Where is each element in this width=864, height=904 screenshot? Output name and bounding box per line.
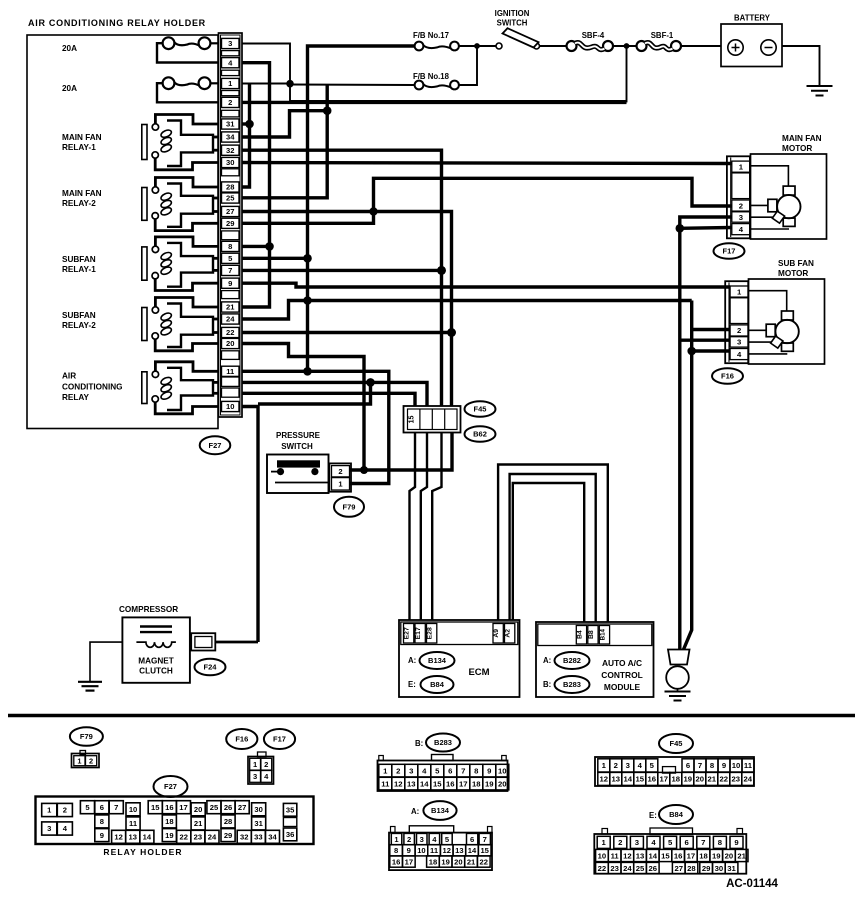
relay body outline xyxy=(167,184,213,227)
wire pin27 junction up and right to main fan pin 2 xyxy=(374,178,732,211)
wire pin 24 up to V4 junction xyxy=(242,301,308,320)
svg-text:20: 20 xyxy=(454,857,462,866)
svg-text:28: 28 xyxy=(226,183,234,192)
svg-text:F45: F45 xyxy=(474,405,487,414)
svg-text:RELAY-2: RELAY-2 xyxy=(62,321,96,330)
junction node pin7 on Va xyxy=(437,266,446,275)
svg-text:18: 18 xyxy=(672,775,681,784)
svg-text:35: 35 xyxy=(286,806,295,815)
svg-text:15: 15 xyxy=(433,779,442,788)
wire F24 to riser xyxy=(215,641,258,644)
svg-text:15: 15 xyxy=(636,775,645,784)
relay contact pin circles xyxy=(152,124,158,130)
svg-text:F16: F16 xyxy=(721,372,734,381)
svg-text:3: 3 xyxy=(737,338,741,347)
svg-text:16: 16 xyxy=(392,857,400,866)
svg-text:1: 1 xyxy=(737,287,742,296)
relay holder pinout box xyxy=(36,797,314,845)
label B62 xyxy=(465,426,496,442)
svg-text:2: 2 xyxy=(264,760,268,769)
ECM box xyxy=(399,620,520,697)
svg-text:9: 9 xyxy=(100,831,104,840)
svg-text:F79: F79 xyxy=(80,732,93,741)
svg-text:23: 23 xyxy=(732,775,741,784)
svg-text:7: 7 xyxy=(483,835,487,844)
relay holder cells group 15-19 xyxy=(148,801,162,814)
svg-text:2: 2 xyxy=(338,467,342,476)
wire loop ECM A9 to module B14 xyxy=(498,465,608,623)
svg-text:9: 9 xyxy=(407,846,411,855)
svg-text:3: 3 xyxy=(635,838,639,847)
svg-text:18: 18 xyxy=(165,817,173,826)
svg-text:A:: A: xyxy=(408,656,416,665)
svg-text:SUBFAN: SUBFAN xyxy=(62,311,96,320)
svg-text:9: 9 xyxy=(734,838,738,847)
junction node compressor branch xyxy=(366,378,375,387)
relay top contact wire xyxy=(155,362,218,372)
wire pin 10 down to compressor clutch xyxy=(242,407,258,643)
sub fan connector F16 strip xyxy=(725,281,748,363)
wire pin 20 to pressure switch pin 2 branch xyxy=(242,344,364,471)
svg-text:32: 32 xyxy=(226,146,234,155)
svg-text:12: 12 xyxy=(442,846,450,855)
svg-text:20: 20 xyxy=(725,851,734,860)
svg-text:15: 15 xyxy=(661,851,670,860)
module pin B4 xyxy=(576,626,586,645)
svg-text:31: 31 xyxy=(727,864,736,873)
relay body outline xyxy=(167,243,213,287)
svg-text:RELAY-1: RELAY-1 xyxy=(62,265,96,274)
svg-text:19: 19 xyxy=(712,851,721,860)
svg-text:10: 10 xyxy=(598,851,607,860)
svg-text:F27: F27 xyxy=(164,782,177,791)
wire pin 27 to junction riser xyxy=(242,210,374,213)
svg-text:11: 11 xyxy=(381,779,390,788)
svg-text:24: 24 xyxy=(208,833,217,842)
svg-text:22: 22 xyxy=(598,864,607,873)
junction node V4 pin11 xyxy=(303,367,312,376)
pressure switch contacts xyxy=(277,468,284,475)
svg-text:25: 25 xyxy=(226,194,235,203)
svg-text:B84: B84 xyxy=(430,680,445,689)
svg-text:13: 13 xyxy=(636,851,645,860)
svg-text:24: 24 xyxy=(226,315,235,324)
wire slot2 down to ECM E17 xyxy=(421,433,427,620)
svg-text:19: 19 xyxy=(165,831,173,840)
pressure switch blade xyxy=(275,482,328,484)
svg-text:CONDITIONING: CONDITIONING xyxy=(62,383,123,392)
junction node main fan pin4 on VA xyxy=(676,224,685,233)
wire VB stub to sub fan pin 2 xyxy=(692,328,730,331)
auto A/C control module box xyxy=(536,622,654,697)
svg-text:9: 9 xyxy=(487,766,491,775)
label F17 xyxy=(714,243,745,259)
svg-text:14: 14 xyxy=(624,775,633,784)
relay bottom contact wire xyxy=(155,158,218,170)
relay coil xyxy=(160,251,173,261)
svg-text:F17: F17 xyxy=(723,247,736,256)
svg-text:17: 17 xyxy=(660,775,669,784)
svg-text:20: 20 xyxy=(194,805,202,814)
wire pin 29 up to pin27 junction xyxy=(242,212,374,224)
svg-text:MAGNET: MAGNET xyxy=(138,657,173,666)
svg-text:11: 11 xyxy=(430,846,439,855)
svg-text:5: 5 xyxy=(650,761,655,770)
relay contact pin circles xyxy=(152,246,158,252)
svg-text:25: 25 xyxy=(210,803,219,812)
svg-text:3: 3 xyxy=(739,213,743,222)
svg-text:F79: F79 xyxy=(343,503,356,512)
junction node pin8 on V2 xyxy=(265,242,274,251)
connector F24 xyxy=(191,633,215,650)
ground battery xyxy=(807,85,833,87)
wire pin 7 to Va xyxy=(242,269,442,272)
relay contact pin circles xyxy=(152,371,158,377)
svg-text:2: 2 xyxy=(618,838,622,847)
svg-text:10: 10 xyxy=(226,402,234,411)
svg-text:18: 18 xyxy=(699,851,708,860)
relay coil leads xyxy=(213,318,219,321)
svg-text:14: 14 xyxy=(143,833,152,842)
wire pin 30 to main fan motor pin 1 xyxy=(242,163,732,164)
svg-text:E28: E28 xyxy=(427,627,434,639)
label F78 xyxy=(334,497,364,517)
wire SBF-4 to SBF-1 xyxy=(612,45,637,47)
svg-text:SBF-4: SBF-4 xyxy=(582,31,605,40)
wire compressor to ground xyxy=(90,642,122,681)
svg-text:SBF-1: SBF-1 xyxy=(651,31,674,40)
svg-text:RELAY-2: RELAY-2 xyxy=(62,199,96,208)
relay top contact wire xyxy=(155,115,218,125)
wire pin 22 to Vb xyxy=(242,331,452,334)
svg-text:22: 22 xyxy=(480,857,488,866)
svg-text:10: 10 xyxy=(498,766,507,775)
wire fuse2 to pin 1 xyxy=(210,82,218,84)
svg-text:16: 16 xyxy=(648,775,657,784)
svg-text:18: 18 xyxy=(429,857,437,866)
svg-text:6: 6 xyxy=(685,838,689,847)
svg-text:SWITCH: SWITCH xyxy=(497,19,528,28)
svg-text:4: 4 xyxy=(737,350,742,359)
vertical V5 from F/B18 wire to pin 25 xyxy=(242,85,327,198)
svg-text:31: 31 xyxy=(254,819,263,828)
wire VA stub to sub fan pin 3 xyxy=(680,339,730,342)
svg-text:30: 30 xyxy=(254,805,262,814)
compressor flange lines xyxy=(140,625,172,627)
svg-text:F16: F16 xyxy=(235,735,248,744)
svg-text:11: 11 xyxy=(129,819,138,828)
svg-text:8: 8 xyxy=(474,766,479,775)
svg-text:A2: A2 xyxy=(505,629,512,638)
svg-text:7: 7 xyxy=(461,766,465,775)
junction node V4 pin24 branch xyxy=(303,296,312,305)
svg-text:A:: A: xyxy=(411,807,419,816)
svg-text:6: 6 xyxy=(470,835,474,844)
relay holder box outline xyxy=(27,35,218,429)
svg-text:6: 6 xyxy=(100,803,104,812)
module pin B14 xyxy=(599,626,609,645)
svg-text:14: 14 xyxy=(648,851,657,860)
ECM pin E17 xyxy=(415,624,425,644)
svg-text:24: 24 xyxy=(744,775,753,784)
svg-text:21: 21 xyxy=(194,819,203,828)
svg-text:SWITCH: SWITCH xyxy=(281,442,313,451)
svg-text:16: 16 xyxy=(165,803,173,812)
svg-text:12: 12 xyxy=(114,833,122,842)
relay holder cells group 35-36 xyxy=(283,803,296,816)
capacitor body xyxy=(668,650,690,665)
svg-text:22: 22 xyxy=(180,833,188,842)
svg-text:4: 4 xyxy=(739,225,744,234)
svg-text:AIR: AIR xyxy=(62,372,76,381)
svg-text:23: 23 xyxy=(610,864,619,873)
vertical VB riser to condenser xyxy=(684,301,692,650)
svg-text:16: 16 xyxy=(674,851,683,860)
relay body outline xyxy=(167,121,213,167)
svg-text:B14: B14 xyxy=(599,628,606,640)
svg-text:15: 15 xyxy=(480,846,489,855)
relay body outline xyxy=(167,304,213,348)
separator line xyxy=(8,714,855,717)
main fan motor symbol xyxy=(777,195,800,218)
svg-text:AIR CONDITIONING RELAY HOLDER: AIR CONDITIONING RELAY HOLDER xyxy=(28,18,206,28)
wire unlabeled row to connector slot 1 xyxy=(242,393,415,406)
svg-text:31: 31 xyxy=(226,120,235,129)
svg-text:2: 2 xyxy=(739,201,743,210)
junction node pin22 on Vb xyxy=(447,328,456,337)
svg-text:F24: F24 xyxy=(204,663,218,672)
connector F78 pinout xyxy=(80,751,86,755)
svg-text:AC-01144: AC-01144 xyxy=(726,878,778,890)
connector B283 pinout xyxy=(378,761,508,792)
svg-text:20: 20 xyxy=(696,775,705,784)
svg-text:RELAY HOLDER: RELAY HOLDER xyxy=(103,847,182,857)
relay holder cells group 1-4 xyxy=(42,803,57,816)
svg-text:13: 13 xyxy=(612,775,621,784)
svg-text:13: 13 xyxy=(407,779,416,788)
strip pin boxes with numbers xyxy=(222,38,240,48)
relay bottom contact wire xyxy=(155,279,218,291)
svg-text:26: 26 xyxy=(648,864,657,873)
svg-text:29: 29 xyxy=(226,219,234,228)
svg-text:MODULE: MODULE xyxy=(604,682,641,692)
svg-text:RELAY-1: RELAY-1 xyxy=(62,143,96,152)
main fan connector F17 strip xyxy=(727,156,750,238)
ECM pin A9 xyxy=(493,624,503,644)
svg-text:10: 10 xyxy=(417,846,425,855)
module pin B8 xyxy=(588,626,598,645)
wire pin 3 right and down xyxy=(242,44,290,84)
svg-text:B:: B: xyxy=(415,739,423,748)
svg-text:F/B No.17: F/B No.17 xyxy=(413,31,449,40)
svg-text:3: 3 xyxy=(420,835,424,844)
relay contact pin circles xyxy=(152,187,158,193)
svg-text:6: 6 xyxy=(448,766,452,775)
relay coil xyxy=(160,312,173,322)
svg-text:11: 11 xyxy=(611,851,620,860)
svg-text:19: 19 xyxy=(441,857,449,866)
svg-text:4: 4 xyxy=(651,838,656,847)
svg-text:21: 21 xyxy=(467,857,476,866)
junction node pin31 on V1 xyxy=(245,120,254,129)
svg-text:3: 3 xyxy=(409,766,413,775)
label F27 bottom xyxy=(154,776,188,797)
connector B134 pinout xyxy=(389,833,492,871)
svg-text:2: 2 xyxy=(63,806,67,815)
svg-text:3: 3 xyxy=(47,824,51,833)
relay bottom contact wire xyxy=(155,219,218,231)
wire loop ECM A2 to module B8 xyxy=(510,474,596,622)
svg-text:3: 3 xyxy=(253,772,257,781)
svg-text:20: 20 xyxy=(226,339,234,348)
svg-text:7: 7 xyxy=(114,803,118,812)
relay coil xyxy=(160,192,173,202)
label F24 xyxy=(195,659,226,676)
svg-text:29: 29 xyxy=(702,864,711,873)
svg-text:22: 22 xyxy=(226,328,234,337)
wire VB stub to sub fan pin 4 xyxy=(692,349,730,352)
svg-text:36: 36 xyxy=(286,830,294,839)
svg-text:9: 9 xyxy=(722,761,726,770)
relay coil leads xyxy=(213,257,219,260)
wire pin 1 stub to junction xyxy=(242,83,290,85)
svg-text:B283: B283 xyxy=(563,680,581,689)
svg-text:5: 5 xyxy=(668,838,673,847)
svg-text:AUTO A/C: AUTO A/C xyxy=(602,658,642,668)
svg-text:25: 25 xyxy=(636,864,645,873)
svg-text:B62: B62 xyxy=(473,430,487,439)
junction node ignition feed xyxy=(474,43,480,49)
svg-text:13: 13 xyxy=(455,846,463,855)
ground capacitor xyxy=(665,691,691,693)
svg-text:MOTOR: MOTOR xyxy=(778,269,808,278)
svg-text:2: 2 xyxy=(89,756,93,765)
connector F16 F17 pinout xyxy=(258,752,267,757)
relay bottom contact wire xyxy=(155,339,218,351)
svg-text:MAIN FAN: MAIN FAN xyxy=(62,133,102,142)
svg-text:14: 14 xyxy=(468,846,477,855)
svg-text:32: 32 xyxy=(240,833,248,842)
wire V4 junction to VB riser sub fan feed xyxy=(308,299,692,302)
svg-text:B8: B8 xyxy=(588,630,595,639)
relay coil leads xyxy=(213,136,219,139)
svg-text:1: 1 xyxy=(602,838,607,847)
wire VA stub to main fan pin 4 xyxy=(680,226,732,230)
label F27 connector xyxy=(200,436,231,454)
capacitor circle xyxy=(666,666,689,689)
svg-text:34: 34 xyxy=(226,133,235,142)
svg-text:8: 8 xyxy=(710,761,715,770)
svg-text:21: 21 xyxy=(226,303,235,312)
svg-text:4: 4 xyxy=(422,766,427,775)
svg-text:MAIN FAN: MAIN FAN xyxy=(782,134,822,143)
relay holder cells group 20-24 xyxy=(191,803,205,816)
relay coil leads xyxy=(213,197,219,200)
ECM pin A2 xyxy=(505,624,515,644)
svg-text:BATTERY: BATTERY xyxy=(734,14,771,23)
svg-text:30: 30 xyxy=(226,158,234,167)
junction node SBF-4 SBF-1 xyxy=(624,43,630,49)
wire pin 34 up-link to V5 xyxy=(242,111,327,137)
svg-text:F45: F45 xyxy=(670,739,683,748)
svg-text:2: 2 xyxy=(228,98,232,107)
label F45 xyxy=(465,401,496,417)
svg-text:B4: B4 xyxy=(576,630,583,639)
relay contact pin circles xyxy=(152,307,158,313)
svg-text:1: 1 xyxy=(383,766,388,775)
svg-text:7: 7 xyxy=(698,761,702,770)
junction node V4 pin5 xyxy=(303,254,312,263)
svg-text:2: 2 xyxy=(737,326,741,335)
wire ignition to SBF-4 xyxy=(540,45,568,47)
svg-text:28: 28 xyxy=(224,817,232,826)
svg-text:2: 2 xyxy=(396,766,400,775)
svg-text:22: 22 xyxy=(720,775,729,784)
connector strip F27 outline xyxy=(219,33,243,417)
relay top contact wire xyxy=(155,178,218,188)
svg-text:1: 1 xyxy=(77,756,81,765)
svg-text:14: 14 xyxy=(420,779,429,788)
svg-text:12: 12 xyxy=(600,775,609,784)
relay holder cells group 5-9 xyxy=(80,801,94,814)
svg-text:12: 12 xyxy=(394,779,403,788)
junction node pressure pin2 xyxy=(360,466,368,474)
wire slot3 down to ECM E28 xyxy=(432,433,441,620)
svg-text:CLUTCH: CLUTCH xyxy=(139,666,173,675)
svg-text:1: 1 xyxy=(739,162,744,171)
svg-text:20: 20 xyxy=(498,779,507,788)
vertical V4 F/B17 feed down to pin11 row xyxy=(308,46,415,371)
svg-text:34: 34 xyxy=(268,833,277,842)
wire fuse1 left loop to pin 4 xyxy=(157,43,219,62)
relay coil xyxy=(160,129,173,139)
svg-text:RELAY: RELAY xyxy=(62,393,90,402)
label F17 bottom xyxy=(264,729,295,749)
svg-text:13: 13 xyxy=(129,833,137,842)
junction node pin27 pin29 xyxy=(369,207,377,215)
svg-text:21: 21 xyxy=(708,775,717,784)
svg-text:CONTROL: CONTROL xyxy=(601,670,642,680)
svg-text:23: 23 xyxy=(194,833,202,842)
svg-text:33: 33 xyxy=(254,833,262,842)
svg-text:16: 16 xyxy=(446,779,455,788)
svg-text:17: 17 xyxy=(179,803,187,812)
vertical VA main fan feed down to condenser xyxy=(680,217,732,650)
svg-text:27: 27 xyxy=(674,864,683,873)
svg-text:29: 29 xyxy=(224,831,232,840)
svg-text:4: 4 xyxy=(638,761,643,770)
svg-text:F27: F27 xyxy=(209,441,222,450)
magnet clutch coil xyxy=(136,642,176,647)
pressure switch connector F78 pins xyxy=(329,463,351,491)
wire SBF-1 to battery xyxy=(680,45,721,47)
relay side bar xyxy=(142,125,147,160)
vertical V1 pin1-pin31-pin28 xyxy=(242,84,250,188)
wire pin 2 to SBF junction riser xyxy=(242,101,627,104)
relay holder cells group 10-14 xyxy=(126,803,140,816)
svg-text:SUB FAN: SUB FAN xyxy=(778,259,814,268)
wire slot1 down to ECM E27 xyxy=(410,433,416,620)
svg-text:F17: F17 xyxy=(273,735,286,744)
svg-text:B84: B84 xyxy=(669,810,684,819)
wire junction down to SBF feed line xyxy=(290,84,627,101)
svg-text:3: 3 xyxy=(228,39,232,48)
svg-text:8: 8 xyxy=(394,846,398,855)
wire battery to ground xyxy=(782,46,820,86)
junction node sub fan pin4 on VB xyxy=(687,347,696,356)
wire fuse1 to pin 3 xyxy=(210,42,218,44)
svg-text:17: 17 xyxy=(459,779,468,788)
